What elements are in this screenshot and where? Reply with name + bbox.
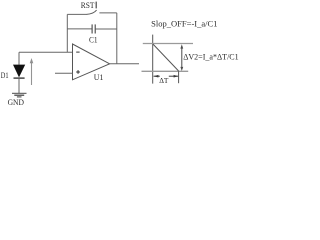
op-amp non-inverting input plus sign [76, 70, 80, 74]
photocurrent arrow I_a [30, 58, 34, 85]
svg-text:RST: RST [81, 1, 95, 10]
photodiode D1 [13, 65, 25, 79]
op-amp inverting input minus sign [76, 51, 79, 53]
wire feedback right vertical [116, 13, 118, 64]
svg-text:Slop_OFF=-I_a/C1: Slop_OFF=-I_a/C1 [151, 19, 217, 29]
graph vertical axis [152, 35, 154, 84]
svg-text:ΔV2=I_a*ΔT/C1: ΔV2=I_a*ΔT/C1 [183, 51, 239, 61]
wire capacitor branch right [95, 28, 116, 30]
switch RST1 contact bar [95, 2, 97, 9]
wire anode of D1 up to input node [18, 52, 20, 65]
wire cathode of D1 to ground [18, 78, 20, 93]
ground [12, 93, 27, 97]
wire node A : D1 to inverting input [19, 51, 73, 53]
svg-text:D1: D1 [1, 70, 9, 80]
op-amp U1 [73, 44, 110, 80]
svg-text:ΔT: ΔT [159, 76, 168, 85]
graph bottom level line [142, 70, 189, 72]
svg-text:U1: U1 [94, 73, 104, 82]
svg-text:GND: GND [8, 97, 24, 107]
wire feedback top right [99, 12, 116, 14]
wire feedback left vertical [66, 14, 68, 52]
svg-text:C1: C1 [89, 35, 98, 44]
dimension arrow dV2 [180, 44, 183, 71]
dimension arrow dT right [169, 75, 179, 78]
switch RST1 lever [87, 10, 97, 14]
wire feedback top left [67, 13, 86, 15]
wire op-amp output [110, 63, 139, 65]
waveform ramp [153, 44, 179, 71]
wire non-inverting input stub [55, 72, 73, 74]
graph right tick [178, 71, 180, 83]
capacitor C1 [92, 24, 95, 33]
wire capacitor branch left [67, 28, 92, 30]
dimension arrow dT left [153, 75, 159, 78]
graph top level line [143, 43, 193, 45]
